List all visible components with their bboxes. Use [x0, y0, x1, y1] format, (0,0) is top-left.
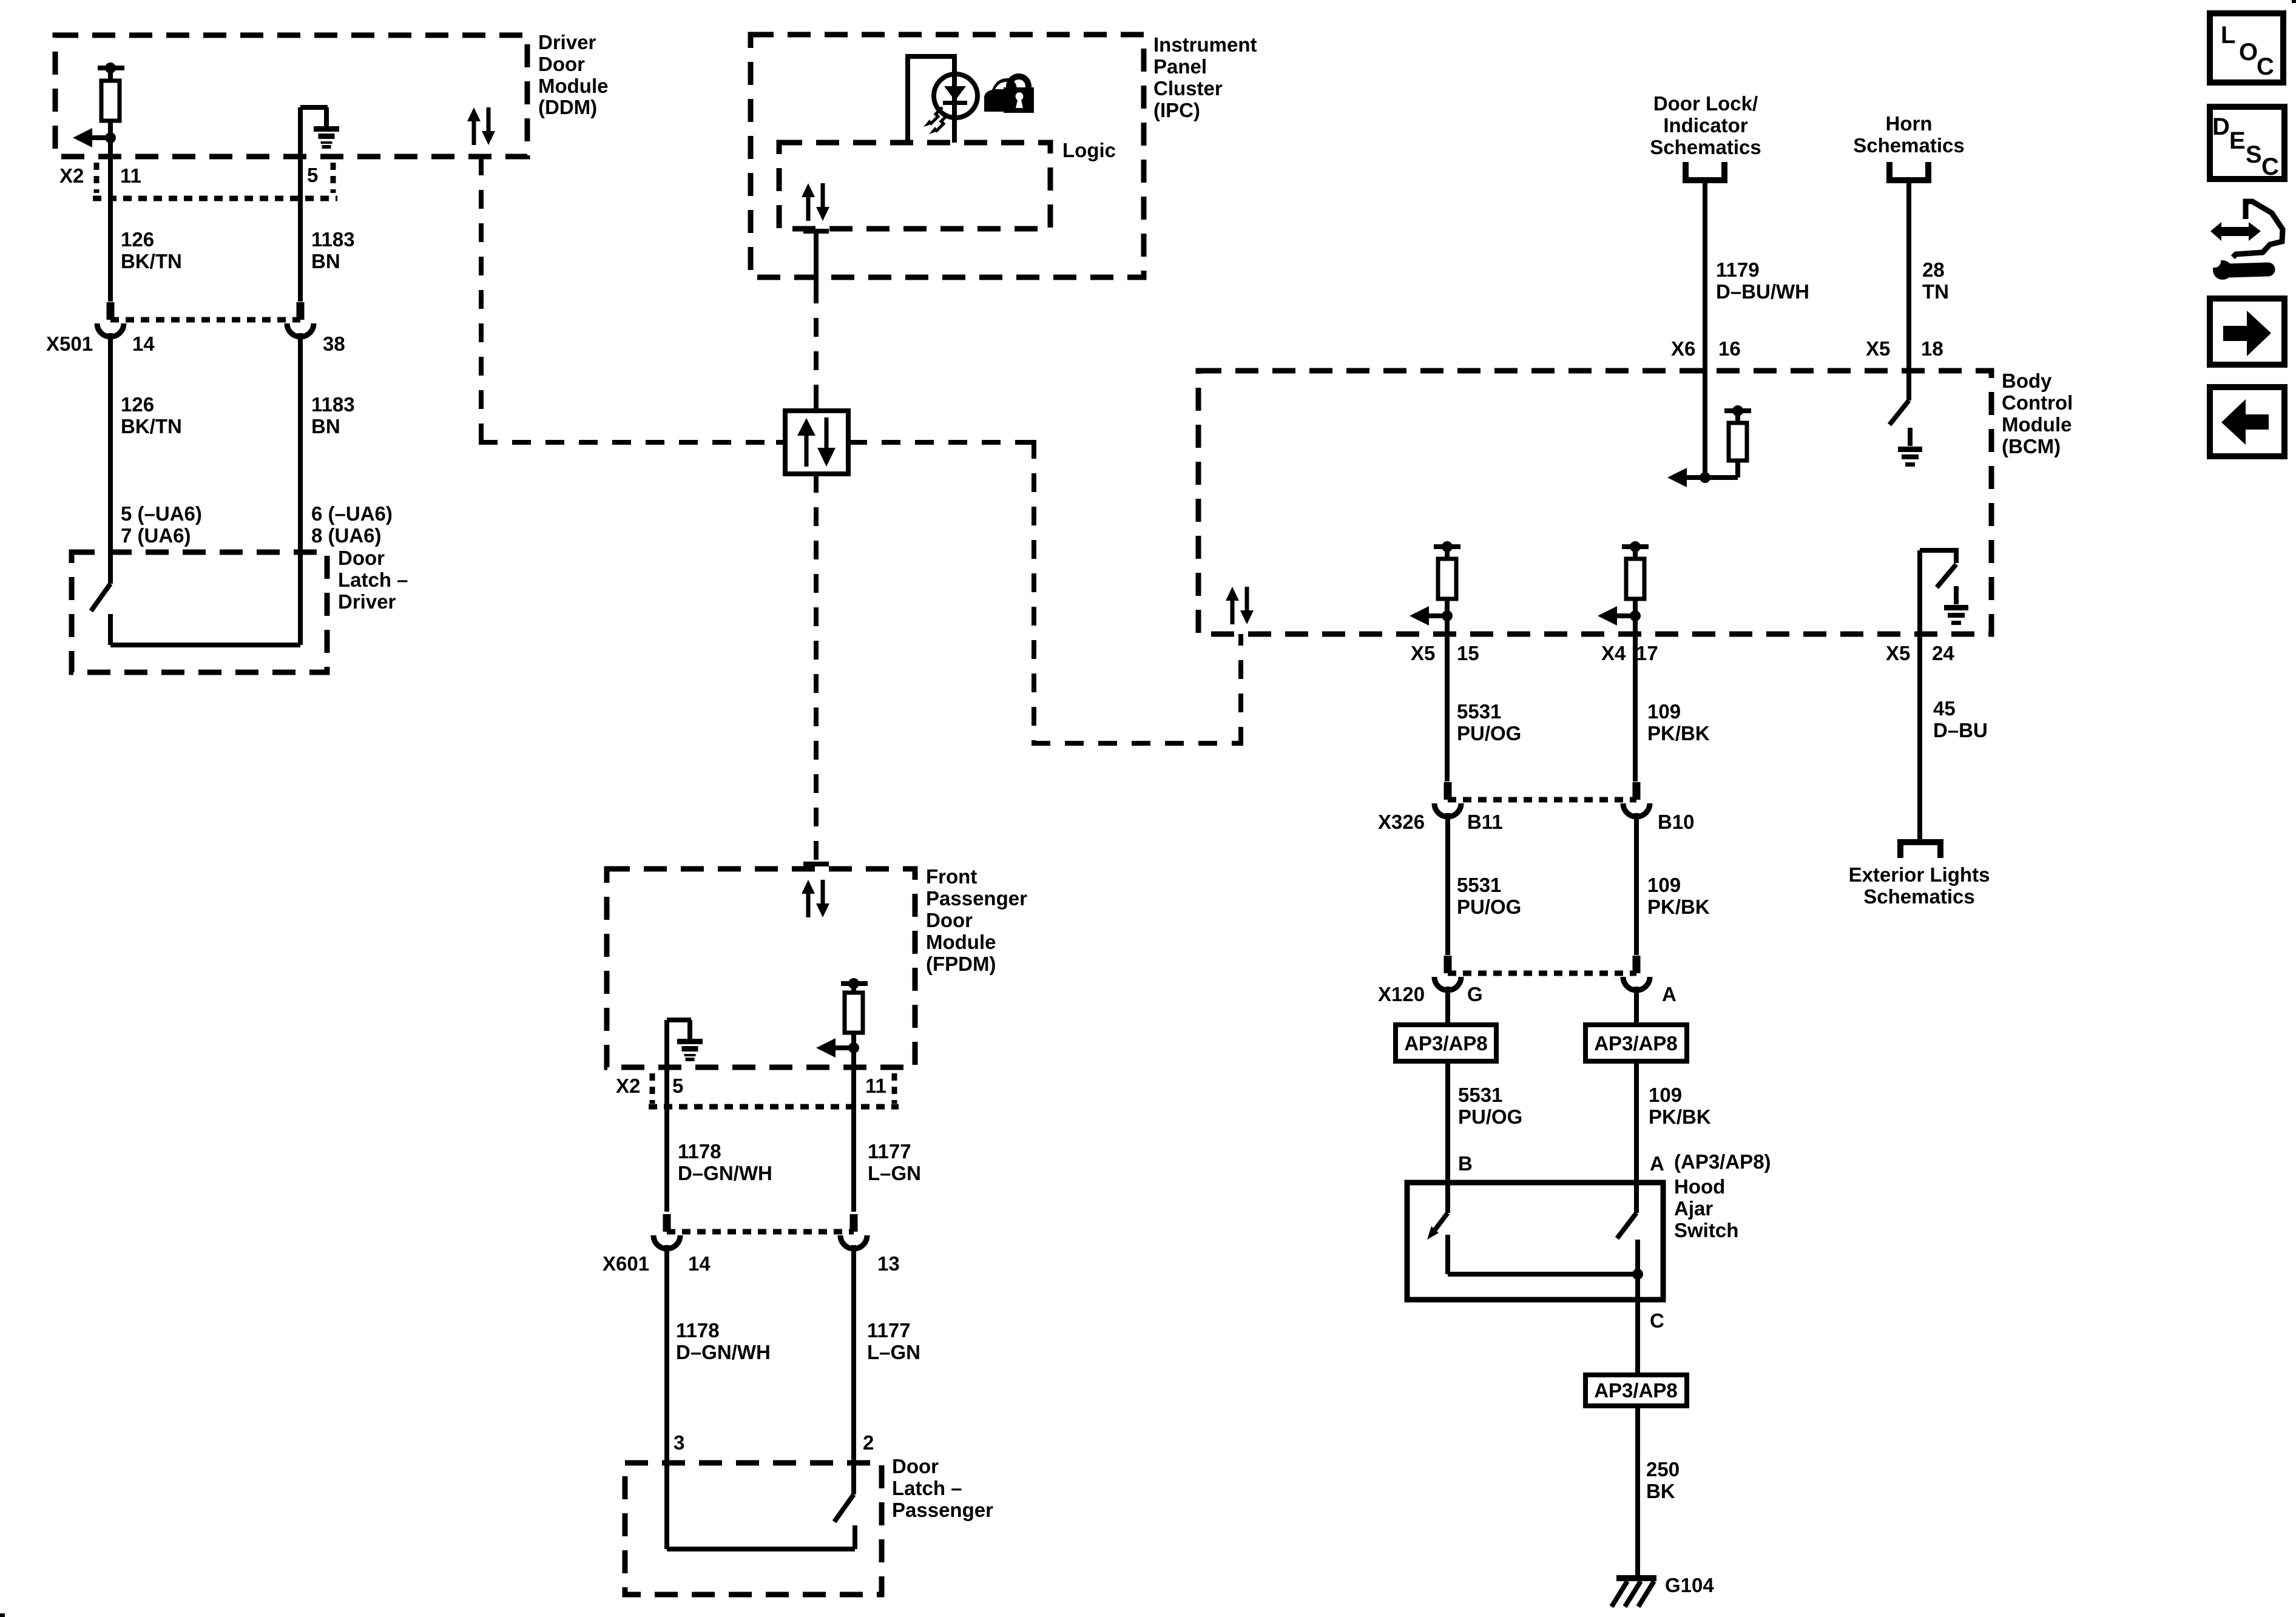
serial data wire to BCM leg: [1032, 741, 1241, 746]
svg-text:Latch –: Latch –: [892, 1477, 962, 1499]
svg-text:1179: 1179: [1716, 258, 1760, 281]
wire 45 D-BU: [1917, 634, 1922, 839]
svg-text:13: 13: [877, 1252, 900, 1275]
svg-text:D–GN/WH: D–GN/WH: [678, 1162, 772, 1184]
svg-text:AP3/AP8: AP3/AP8: [1594, 1032, 1678, 1055]
svg-text:45: 45: [1933, 697, 1956, 720]
label Driver Door Module (DDM): [538, 31, 608, 118]
svg-text:Hood: Hood: [1674, 1175, 1725, 1198]
wire 250 BK: [1635, 1406, 1640, 1578]
svg-text:G104: G104: [1665, 1574, 1714, 1596]
hood ajar input switch in BCM (pin 24): [1920, 548, 1956, 634]
svg-text:BK: BK: [1646, 1480, 1675, 1502]
svg-text:AP3/AP8: AP3/AP8: [1404, 1032, 1488, 1055]
label Front Passenger Door Module (FPDM): [926, 865, 1027, 975]
svg-text:PU/OG: PU/OG: [1457, 896, 1521, 918]
serial data symbol in FPDM: [802, 880, 829, 917]
splice pack AP3/AP8 (left): [1396, 1025, 1496, 1061]
off-page bracket Door Lock: [1686, 162, 1724, 180]
svg-text:Door: Door: [338, 547, 385, 569]
svg-text:X6: X6: [1671, 337, 1695, 360]
wire 1177 L-GN (lower): [851, 1245, 856, 1494]
ground contact for horn switch: [1898, 428, 1922, 467]
svg-text:Door: Door: [892, 1455, 939, 1477]
svg-text:(DDM): (DDM): [538, 96, 597, 118]
svg-text:TN: TN: [1922, 280, 1949, 303]
svg-text:Body: Body: [2002, 370, 2052, 392]
wire 5531 PU/OG (upper): [1445, 616, 1450, 781]
resistor in BCM (circuit 109): [1622, 541, 1649, 616]
serial data wire junction to right: [848, 440, 1034, 445]
serial data symbol in Logic: [802, 183, 829, 221]
svg-text:17: 17: [1636, 642, 1658, 664]
svg-text:X2: X2: [616, 1075, 640, 1097]
serial data symbol in DDM: [467, 107, 495, 145]
wire 1183 BN (lower): [298, 333, 303, 645]
ground in DDM (pin 5 circuit): [300, 107, 339, 157]
svg-text:BN: BN: [311, 415, 340, 437]
svg-text:Schematics: Schematics: [1863, 885, 1974, 908]
node / junction with output arrow (109): [1598, 606, 1641, 626]
svg-text:D–BU/WH: D–BU/WH: [1716, 280, 1809, 303]
Driver Door Module (DDM) box: [55, 35, 527, 157]
label Exterior Lights Schematics: [1849, 863, 1990, 908]
svg-text:38: 38: [323, 333, 345, 355]
svg-text:Logic: Logic: [1062, 139, 1116, 161]
svg-text:7 (UA6): 7 (UA6): [121, 524, 191, 547]
svg-text:3: 3: [674, 1431, 684, 1454]
svg-text:Indicator: Indicator: [1663, 114, 1748, 137]
ground contact for pin24 switch: [1944, 586, 1968, 625]
off-page bracket Horn: [1889, 162, 1928, 180]
wire pin11 inside DDM down to X2: [108, 138, 113, 198]
serial data wire up into BCM: [1238, 634, 1243, 746]
svg-text:B10: B10: [1658, 811, 1695, 833]
wire pin16 into BCM: [1703, 371, 1707, 478]
LED light rays: [923, 107, 948, 134]
pin 6/8 labels (driver latch): [311, 502, 393, 547]
logic box output tick: [803, 229, 829, 234]
svg-text:AP3/AP8: AP3/AP8: [1594, 1379, 1678, 1402]
svg-text:L–GN: L–GN: [867, 1341, 920, 1363]
Front Passenger Door Module (FPDM) box: [607, 869, 915, 1067]
connector X326: [1434, 782, 1650, 817]
svg-text:Module: Module: [926, 931, 996, 953]
svg-text:Front: Front: [926, 865, 977, 888]
svg-text:Switch: Switch: [1674, 1219, 1738, 1241]
page mark dot top right: [2292, 0, 2296, 3]
svg-text:Module: Module: [538, 75, 608, 97]
svg-text:B11: B11: [1467, 811, 1503, 833]
svg-text:Module: Module: [2002, 413, 2071, 436]
hood ajar switch pole A: [1617, 1213, 1638, 1274]
svg-text:L–GN: L–GN: [868, 1162, 921, 1184]
svg-text:X5: X5: [1866, 337, 1890, 360]
svg-text:15: 15: [1457, 642, 1479, 664]
svg-text:D–GN/WH: D–GN/WH: [676, 1341, 771, 1363]
door ajar switch (passenger latch): [667, 1494, 855, 1549]
serial data wire IPC to junction: [814, 285, 819, 411]
svg-text:Driver: Driver: [338, 590, 396, 613]
svg-text:(FPDM): (FPDM): [926, 953, 996, 975]
wire 1178 D-GN/WH (upper): [664, 1067, 669, 1212]
connector X2 (FPDM) strip: [649, 1073, 899, 1107]
svg-text:16: 16: [1718, 337, 1741, 360]
svg-text:1177: 1177: [868, 1140, 911, 1163]
svg-text:5531: 5531: [1457, 874, 1501, 896]
wire 109 PK/BK (middle): [1634, 813, 1639, 955]
svg-text:PU/OG: PU/OG: [1457, 722, 1521, 744]
connector X2 (DDM) strip: [93, 163, 337, 198]
wire 5531 PU/OG (middle): [1445, 813, 1450, 955]
svg-text:Schematics: Schematics: [1650, 136, 1761, 158]
svg-text:BK/TN: BK/TN: [121, 415, 182, 437]
svg-text:(IPC): (IPC): [1153, 99, 1200, 121]
svg-text:G: G: [1467, 983, 1483, 1005]
forward arrow icon: [2210, 299, 2284, 365]
svg-text:E: E: [2229, 127, 2246, 154]
Door Latch - Driver box: [72, 552, 327, 672]
pin 5/7 labels (driver latch): [121, 502, 202, 547]
svg-text:A: A: [1650, 1152, 1664, 1175]
wire 109 PK/BK (lower): [1634, 1061, 1639, 1213]
node / junction with output arrow (1179): [1667, 468, 1710, 487]
svg-text:18: 18: [1921, 337, 1943, 360]
svg-text:109: 109: [1647, 874, 1681, 896]
label Door Latch - Driver: [338, 547, 408, 613]
svg-text:Exterior Lights: Exterior Lights: [1849, 863, 1990, 886]
resistor in BCM (circuit 5531): [1434, 541, 1460, 616]
car with padlock security icon: [984, 73, 1034, 113]
LOC navigation icon: [2210, 13, 2283, 83]
svg-text:2: 2: [863, 1431, 874, 1454]
hood ajar switch pole B: [1427, 1213, 1448, 1274]
svg-text:A: A: [1662, 983, 1676, 1005]
label Body Control Module (BCM): [2002, 370, 2073, 457]
svg-text:X2: X2: [59, 164, 84, 187]
node / junction with output arrow in FPDM: [816, 1038, 859, 1058]
Hood Ajar Switch box: [1407, 1183, 1663, 1300]
horn switch in BCM (pin 18): [1889, 371, 1909, 425]
wire 1177 L-GN (upper): [851, 1107, 856, 1212]
svg-text:1183: 1183: [311, 228, 355, 251]
node / junction with output arrow in DDM: [73, 128, 116, 147]
svg-text:11: 11: [120, 164, 141, 187]
svg-text:5531: 5531: [1457, 700, 1501, 723]
resistor in BCM (circuit 1179): [1705, 405, 1751, 478]
svg-text:126: 126: [121, 228, 154, 251]
svg-text:BN: BN: [311, 250, 340, 272]
wire to AP3/AP8 (right): [1634, 987, 1639, 1025]
Instrument Panel Cluster (IPC) box: [751, 35, 1144, 277]
svg-text:5 (–UA6): 5 (–UA6): [121, 502, 202, 525]
svg-text:1178: 1178: [676, 1319, 720, 1342]
svg-text:C: C: [2261, 154, 2279, 180]
wire 1178 D-GN/WH (lower): [664, 1245, 669, 1549]
svg-text:24: 24: [1932, 642, 1954, 664]
FPDM entry tick: [803, 862, 829, 866]
svg-text:PK/BK: PK/BK: [1647, 896, 1710, 918]
back arrow icon: [2210, 387, 2284, 456]
svg-text:X501: X501: [46, 333, 93, 355]
svg-text:C: C: [2257, 53, 2274, 80]
svg-text:5: 5: [307, 164, 318, 186]
svg-text:C: C: [1650, 1309, 1664, 1332]
wire 126 BK/TN (lower): [108, 333, 113, 584]
svg-text:Ajar: Ajar: [1674, 1197, 1713, 1220]
Logic box in IPC: [779, 143, 1050, 229]
ground in FPDM (pin 5 circuit): [667, 1020, 703, 1067]
label Door Latch - Passenger: [892, 1455, 993, 1521]
svg-text:D–BU: D–BU: [1933, 719, 1988, 741]
svg-text:X120: X120: [1378, 983, 1425, 1005]
serial data symbol in BCM: [1226, 587, 1254, 624]
serial data junction box: [785, 411, 848, 474]
door ajar switch (driver latch): [91, 584, 300, 645]
label Hood Ajar Switch: [1674, 1175, 1738, 1241]
svg-text:Passenger: Passenger: [926, 887, 1027, 910]
svg-text:X4: X4: [1601, 642, 1626, 664]
label Instrument Panel Cluster (IPC): [1153, 33, 1257, 121]
connector X501: [97, 302, 314, 337]
svg-text:14: 14: [132, 333, 155, 355]
label Horn Schematics: [1853, 112, 1964, 157]
serial data wire DDM to junction: [479, 440, 785, 445]
svg-text:1183: 1183: [311, 393, 355, 416]
svg-text:28: 28: [1922, 258, 1945, 281]
svg-text:BK/TN: BK/TN: [121, 250, 182, 272]
svg-text:Door Lock/: Door Lock/: [1653, 92, 1758, 115]
svg-text:Schematics: Schematics: [1853, 134, 1964, 157]
connector X120: [1434, 956, 1650, 990]
switch common bus: [1448, 1269, 1643, 1280]
svg-text:(BCM): (BCM): [2002, 435, 2061, 457]
serial data wire DDM drop: [479, 157, 484, 442]
Door Latch - Passenger box: [625, 1463, 882, 1595]
page mark dot: [0, 1613, 5, 1617]
splice pack AP3/AP8 (right): [1585, 1025, 1687, 1061]
svg-text:Passenger: Passenger: [892, 1499, 993, 1521]
svg-text:Latch –: Latch –: [338, 569, 408, 591]
DESC navigation icon: [2210, 107, 2284, 180]
svg-text:PK/BK: PK/BK: [1649, 1106, 1711, 1128]
wire from logic to IPC edge: [814, 231, 819, 285]
serial data symbol in junction box: [797, 417, 836, 467]
svg-text:(AP3/AP8): (AP3/AP8): [1674, 1150, 1771, 1173]
chassis ground G104: [1612, 1575, 1656, 1607]
svg-text:B: B: [1458, 1152, 1473, 1175]
svg-text:X5: X5: [1886, 642, 1910, 664]
svg-text:X326: X326: [1378, 811, 1425, 833]
svg-text:109: 109: [1649, 1084, 1682, 1106]
wire 126 BK/TN (upper): [108, 198, 113, 302]
label Door Lock/Indicator Schematics: [1650, 92, 1761, 158]
LED indicator (door ajar telltale): [934, 74, 977, 118]
resistor in FPDM (pull-up on circuit 1177): [841, 978, 868, 1048]
wire pin11 inside FPDM down to X2: [851, 1048, 856, 1107]
wire pin C: [1635, 1274, 1640, 1375]
Body Control Module (BCM) box: [1198, 371, 1991, 634]
svg-text:250: 250: [1646, 1458, 1680, 1480]
resistor in DDM (pull-up on circuit 126): [98, 62, 124, 138]
serial data wire right drop: [1032, 440, 1036, 743]
wire to AP3/AP8 (left): [1445, 987, 1450, 1025]
svg-text:1177: 1177: [867, 1319, 911, 1342]
svg-text:Door: Door: [926, 909, 973, 931]
node / junction with output arrow (5531): [1410, 606, 1453, 626]
svg-text:Control: Control: [2002, 391, 2073, 414]
indicator LED loop in IPC: [905, 56, 957, 143]
wire 28 TN: [1906, 180, 1911, 371]
svg-text:14: 14: [688, 1252, 711, 1275]
serial data wire junction down to FPDM: [814, 474, 819, 862]
svg-text:S: S: [2246, 141, 2262, 168]
svg-text:5: 5: [672, 1075, 683, 1097]
splice pack AP3/AP8 (ground side): [1585, 1375, 1687, 1406]
svg-text:L: L: [2221, 22, 2235, 49]
svg-text:Panel: Panel: [1153, 55, 1207, 78]
wire 5531 PU/OG (lower): [1445, 1061, 1450, 1213]
wire 1183 BN (upper): [298, 157, 303, 302]
off-page bracket Exterior Lights: [1900, 842, 1940, 858]
svg-text:Cluster: Cluster: [1153, 77, 1223, 100]
svg-text:D: D: [2212, 113, 2230, 140]
svg-text:Driver: Driver: [538, 31, 596, 53]
svg-text:X601: X601: [603, 1252, 649, 1275]
svg-text:11: 11: [865, 1075, 886, 1097]
svg-text:1178: 1178: [678, 1140, 721, 1163]
svg-text:X5: X5: [1411, 642, 1435, 664]
svg-text:Horn: Horn: [1886, 112, 1933, 135]
wire 109 PK/BK (upper): [1633, 616, 1638, 781]
hand with wrench tool icon: [2209, 201, 2283, 280]
junction box stubs: [776, 401, 857, 483]
wire 1179 D-BU/WH: [1703, 180, 1707, 371]
svg-text:Instrument: Instrument: [1153, 33, 1257, 56]
svg-text:126: 126: [121, 393, 154, 416]
svg-text:O: O: [2239, 39, 2258, 66]
svg-text:PU/OG: PU/OG: [1458, 1106, 1522, 1128]
svg-text:5531: 5531: [1458, 1084, 1502, 1106]
svg-text:Door: Door: [538, 53, 585, 75]
svg-text:109: 109: [1647, 700, 1681, 723]
connector X601: [653, 1214, 867, 1249]
svg-text:8 (UA6): 8 (UA6): [311, 524, 382, 547]
svg-text:6 (–UA6): 6 (–UA6): [311, 502, 393, 525]
svg-text:PK/BK: PK/BK: [1647, 722, 1710, 744]
